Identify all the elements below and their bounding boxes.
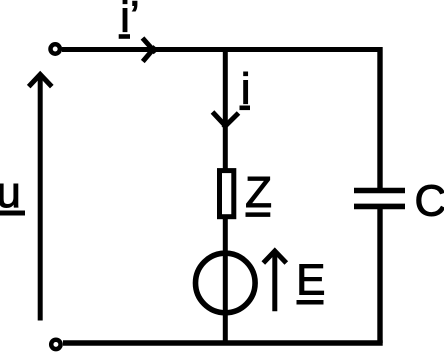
terminal top-left [51, 44, 60, 53]
arrow i' head on top wire [143, 38, 156, 62]
impedance Z box [220, 171, 234, 217]
wire bottom horizontal [63, 340, 383, 345]
svg-text:C: C [415, 177, 444, 226]
source E circle [196, 253, 256, 313]
svg-text:E: E [296, 256, 325, 305]
arrow E (pointing up, right of source) [263, 251, 286, 311]
underline of i [240, 106, 251, 111]
wire middle branch vertical [223, 47, 228, 343]
capacitor C bottom plate [354, 204, 405, 210]
wire right vertical upper (to capacitor) [377, 47, 382, 188]
underline of u [0, 211, 25, 216]
wire right vertical lower (from capacitor) [377, 209, 382, 343]
svg-text:Z: Z [245, 168, 272, 217]
capacitor C top plate [354, 188, 405, 194]
underline of Z [246, 212, 271, 217]
underline of E [297, 300, 324, 305]
wire top horizontal [62, 47, 380, 52]
arrow i head on middle branch [213, 112, 239, 128]
underline of i' [119, 34, 130, 39]
arrow u (voltage, pointing up, left side) [29, 74, 52, 320]
svg-text:u: u [0, 168, 21, 217]
terminal bottom-left [51, 340, 60, 349]
